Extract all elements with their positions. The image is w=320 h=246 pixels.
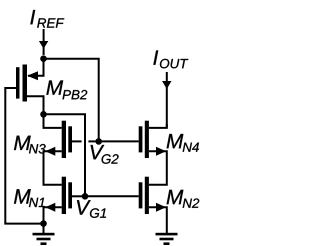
wire node B to MN3 drain [44,114,62,128]
junction dot at left ground [40,220,47,227]
arrowhead MPB2 source (PMOS, points into channel) [27,71,38,80]
label M_N2 [167,190,200,208]
arrowhead I_REF current arrow [39,41,48,49]
transistor MN4 channel bar [145,121,149,158]
arrowhead I_OUT current arrow [162,81,171,89]
ground (left) [33,233,55,245]
node A junction dot (I_REF / MPB2 source / V_G2 rail) [40,55,47,62]
label V_G1 [77,200,106,218]
label M_N3 [14,136,46,154]
wire MPB2 gate to ground node [5,88,43,224]
node V_G2 junction dot [95,138,102,145]
transistor MN1 channel bar [62,177,66,214]
label M_N4 [167,134,199,152]
arrowhead MN2 source (NMOS, points out) [156,203,166,212]
transistor MN3 channel bar [62,121,66,158]
transistor MN4 gate bar [139,126,143,152]
label I_REF [30,10,64,28]
wire V_G1 to MN1 gate [72,195,85,197]
transistor MPB2 channel bar [23,65,28,102]
wire MN4 drain [149,124,167,128]
transistor MN3 gate bar [68,126,72,152]
transistor MN1 gate bar [68,182,72,208]
wire MPB2 source to node A [28,59,44,76]
wire I_REF input [43,29,45,55]
label M_PB2 [46,80,87,99]
arrowhead MN4 source (NMOS, points out) [156,147,166,156]
transistor MPB2 gate bar [16,67,20,98]
arrowhead MN1 source (NMOS, points out) [45,203,55,212]
wire V_G1 to MN2 gate [85,195,139,197]
wire MN3 source to MN1 drain [44,151,62,185]
label V_G2 [91,145,119,164]
node B junction dot (MPB2 drain / MN3 drain / V_G1 rail) [40,111,47,118]
wire left ground stem [43,224,45,234]
wire I_OUT input [166,72,168,128]
wire MN3 gate stub (hop over node-B wire) [72,140,82,142]
wire V_G2 to MN4 gate [99,140,139,142]
node V_G1 junction dot [82,193,89,200]
wire MN2 source to ground [149,207,167,233]
arrowhead MN3 source (NMOS, points out) [45,147,55,156]
wire node B to V_G1 column [44,114,86,196]
wire V_G2 to MN3 gate (right of hop) [88,140,98,142]
ground (right) [156,233,178,245]
wire node A to V_G2 column (top horizontal) [44,59,99,142]
wire MPB2 drain to node B [27,96,44,114]
wire MN1 source to ground [44,207,62,223]
transistor MN2 channel bar [145,177,149,214]
label M_N1 [14,189,45,207]
transistor MN2 gate bar [139,182,143,208]
wire MN4 source to MN2 drain [149,151,167,185]
label I_OUT [153,50,188,68]
